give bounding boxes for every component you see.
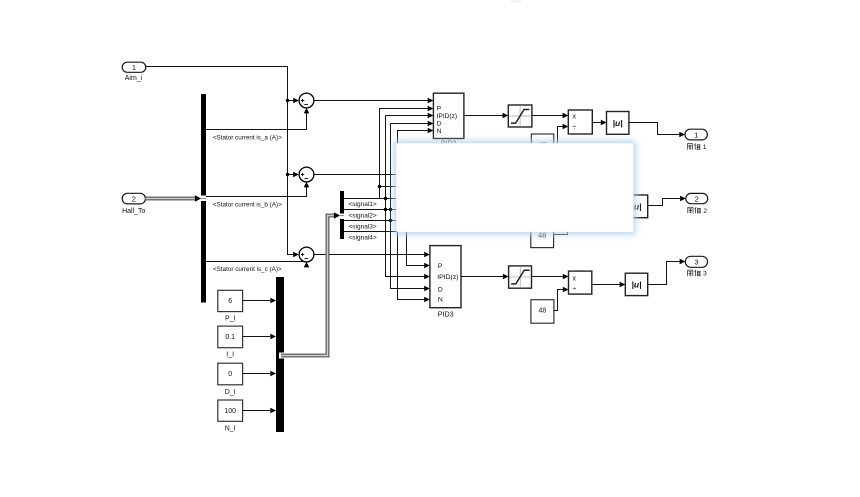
svg-text:N_I: N_I [225, 425, 236, 432]
wire stator is_c to sum3 [206, 261, 304, 263]
wire divide1 to abs1 [592, 122, 601, 124]
svg-text:0.1: 0.1 [225, 334, 235, 341]
wire signal2 [344, 209, 399, 211]
svg-text:x: x [573, 114, 577, 121]
svg-text:0: 0 [228, 371, 232, 378]
sum block 3 [299, 247, 314, 262]
svg-text:2: 2 [695, 194, 699, 203]
wire sum2 out (goes under overlay) [314, 174, 400, 176]
wire D trunk to PID1 D and PID3 D [391, 124, 429, 289]
svg-text:<signal1>: <signal1> [349, 201, 377, 208]
constant 48 (row3) [531, 300, 554, 324]
divide block 2 (hidden) [568, 187, 592, 211]
tooltip overlay glow [394, 141, 637, 235]
bus wire Hall_To to bus selector bar [145, 197, 196, 201]
signal bus selector bar [340, 191, 344, 239]
svg-text:I_I: I_I [226, 352, 234, 359]
arrowhead into bus selector [195, 195, 201, 202]
sum block 2 [299, 167, 314, 182]
tooltip overlay white panel [396, 143, 633, 232]
junction dots on signal trunks [384, 197, 392, 222]
outport 1 [685, 129, 707, 140]
constant 48 (row1) [531, 134, 553, 157]
wire I trunk to PID1 I and PID3 I [386, 116, 429, 277]
row 2 blocks hidden under overlay: PID2 [433, 169, 464, 216]
label outport1 threshold 1 [687, 144, 700, 150]
svg-text:3: 3 [694, 258, 698, 267]
wire stator is_a to sum1 [206, 113, 307, 130]
svg-text:6: 6 [228, 298, 232, 305]
svg-text:P: P [437, 106, 442, 113]
wire I_I to mux [243, 336, 270, 338]
svg-text:100: 100 [224, 408, 236, 415]
svg-text:<Stator current is_c (A)>: <Stator current is_c (A)> [213, 266, 282, 273]
wire Aim_i to sums [146, 67, 294, 255]
constant P_I value 6 [218, 290, 243, 322]
wire signal1 [344, 198, 399, 200]
abs block 3 [625, 273, 647, 295]
wire abs2 to outport 2 [648, 199, 680, 206]
wire row2 connections (hidden) [464, 193, 625, 207]
svg-text:P: P [438, 263, 443, 270]
abs block 1 [607, 112, 629, 135]
sum block 1 [299, 93, 314, 108]
svg-text:x: x [573, 276, 577, 283]
svg-text:IPID(z): IPID(z) [437, 274, 458, 281]
svg-text:2: 2 [703, 208, 707, 215]
svg-text:N: N [438, 297, 443, 304]
wire divide3 to abs3 [592, 284, 620, 286]
saturation block 2 (hidden) [508, 182, 532, 204]
divide block 3 [569, 271, 592, 294]
white output notch on mux [279, 353, 284, 359]
svg-text:D_I: D_I [225, 389, 236, 396]
wire sum3 out to PID3 u [314, 254, 425, 256]
wire PID3 out to saturation3 [461, 276, 503, 278]
arrowhead up into sum3 [304, 262, 310, 268]
wire D_I to mux [243, 373, 270, 375]
bus wire mux to signal bus selector [281, 216, 335, 356]
wire saturation1 to divide1 x input [532, 115, 563, 117]
svg-text:48: 48 [539, 307, 547, 314]
wire N_I to mux [243, 410, 270, 412]
junction dots on Aim_i line [286, 99, 289, 176]
wire abs3 to outport 3 [648, 262, 680, 285]
saturation block 3 [509, 266, 532, 288]
constant 48 (row2) [531, 225, 554, 248]
wire 48 row2 to divide2 [554, 211, 568, 235]
svg-text:|u|: |u| [613, 118, 623, 128]
wire stator is_b to sum2 [206, 187, 307, 197]
label outport3 threshold 3 [688, 270, 701, 276]
outport 2 [686, 193, 708, 203]
svg-text:<signal4>: <signal4> [349, 235, 377, 242]
svg-text:IPID(z): IPID(z) [437, 113, 458, 120]
svg-text:<signal3>: <signal3> [349, 223, 377, 230]
wire 48 row1 to divide1 ÷ input [554, 127, 563, 146]
PID controller block PID1 [433, 93, 464, 147]
abs block 2 (partially visible) [625, 195, 647, 218]
outport 3 [685, 256, 707, 267]
arrowhead up into sum1 [304, 108, 310, 114]
wire P trunk down to PID3 P [407, 205, 425, 266]
svg-text:2: 2 [132, 194, 136, 203]
svg-text:D: D [438, 286, 443, 293]
svg-text:Hall_To: Hall_To [122, 208, 145, 215]
arrowheads into sum + inputs [293, 98, 299, 258]
wire saturation3 to divide3 x input [532, 276, 563, 278]
inport 1 Aim_i [122, 62, 146, 82]
svg-text:|u|: |u| [631, 280, 641, 290]
arrowhead into signal bus selector [334, 212, 340, 219]
svg-text:3: 3 [703, 271, 707, 278]
wire signal4 to PID3 N [344, 232, 424, 300]
svg-text:<Stator current is_b (A)>: <Stator current is_b (A)> [213, 202, 282, 209]
white connection notch on bar [201, 196, 206, 202]
inport 2 Hall_To [122, 193, 145, 215]
arrowhead up into sum2 [304, 182, 310, 188]
wire sum1 out to PID1 u [314, 100, 428, 102]
svg-text:P_I: P_I [225, 316, 236, 323]
faint smudge top [511, 0, 521, 3]
white notch on signal bus selector [340, 214, 344, 220]
bus selector bar (tall black bar) [201, 94, 206, 303]
svg-text:PID3: PID3 [438, 309, 454, 318]
svg-text:1: 1 [694, 130, 698, 139]
wire P trunk signal1 up to PID1 P [380, 109, 429, 199]
wire 48 row3 to divide3 ÷ input [554, 290, 563, 311]
svg-text:D: D [437, 121, 442, 128]
wire N trunk to PID1 N (vertical shared with signal4 elbow) [398, 131, 429, 232]
svg-text:÷: ÷ [572, 125, 576, 132]
wire PID2 P stub [380, 186, 400, 188]
svg-text:1: 1 [703, 144, 707, 151]
svg-text:Aim_i: Aim_i [125, 75, 143, 82]
svg-text:<signal2>: <signal2> [349, 212, 377, 219]
PID controller block PID3 [430, 246, 461, 319]
wire abs1 to outport 1 [629, 123, 680, 135]
constant D_I value 0 [218, 363, 243, 396]
svg-text:<Stator current is_a (A)>: <Stator current is_a (A)> [213, 135, 282, 142]
divide block 1 [568, 110, 592, 134]
label outport2 threshold 2 [688, 207, 701, 213]
saturation block 1 [508, 105, 532, 127]
constant I_I value 0.1 [218, 326, 243, 359]
svg-text:÷: ÷ [572, 286, 576, 293]
wire PID1 out to saturation1 [464, 115, 503, 117]
svg-text:1: 1 [132, 63, 136, 72]
mux bar (tall black bar) [276, 277, 284, 432]
wire signal3 [344, 220, 399, 222]
svg-text:N: N [437, 128, 442, 135]
constant N_I value 100 [218, 400, 243, 432]
wire P_I to mux [243, 300, 270, 302]
